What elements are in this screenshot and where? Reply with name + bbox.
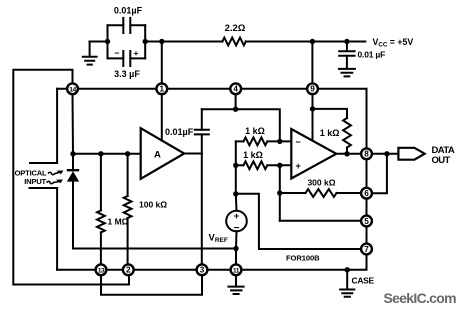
svg-text:300 kΩ: 300 kΩ xyxy=(307,178,335,188)
junction dot minus input xyxy=(277,139,282,144)
junction node 1 drop on top rail xyxy=(159,39,164,44)
svg-text:OUT: OUT xyxy=(432,155,451,166)
wire node 14 top loop left xyxy=(13,70,129,285)
comparator U2 xyxy=(291,129,336,179)
svg-text:14: 14 xyxy=(69,87,76,94)
junction dot 1M top xyxy=(98,151,103,156)
wire top rail left stub to bypass caps xyxy=(90,41,108,43)
junction dot node4 drop xyxy=(233,107,238,112)
junction node 9 drop on top rail xyxy=(310,39,315,44)
capacitor C1 0.01uF (top branch of parallel pair) xyxy=(108,6,146,59)
svg-text:0.01µF: 0.01µF xyxy=(114,6,143,16)
wire comparator output xyxy=(336,153,361,155)
node 1 xyxy=(156,83,167,94)
wire plus vertical corner to node 5 xyxy=(280,220,361,222)
svg-text:6: 6 xyxy=(364,189,369,198)
junction dot case ground xyxy=(345,267,350,272)
svg-text:5: 5 xyxy=(364,217,369,226)
node 5 xyxy=(361,216,372,227)
svg-text:+: + xyxy=(234,211,240,222)
svg-text:1 kΩ: 1 kΩ xyxy=(243,150,263,160)
ground (case) xyxy=(340,270,354,297)
node 4 xyxy=(230,83,241,94)
svg-text:3.3 µF: 3.3 µF xyxy=(114,69,140,79)
svg-text:+: + xyxy=(296,161,301,171)
wire node 13 lower loop to node 3 xyxy=(101,275,202,294)
junction dot output branch xyxy=(384,151,389,156)
wire node 1 drop into amp top xyxy=(161,94,163,140)
data out arrow xyxy=(398,148,424,160)
wire 1k pair left vertical to VREF xyxy=(235,141,237,193)
svg-text:100 kΩ: 100 kΩ xyxy=(139,200,167,210)
node junction dot photodiode top xyxy=(70,151,75,156)
wire node-9 drop xyxy=(311,42,313,84)
wire VREF bottom to node 11 xyxy=(235,249,237,265)
junction dot VREF bottom xyxy=(233,246,238,251)
wire node 7 down to bottom row xyxy=(242,255,367,270)
ground (VCC bypass) xyxy=(339,69,355,77)
op-amp U1 A xyxy=(141,128,185,179)
svg-text:1 kΩ: 1 kΩ xyxy=(245,126,265,136)
svg-text:13: 13 xyxy=(98,268,105,275)
wire pin row horizontal 14-1-4-9 xyxy=(57,88,366,90)
svg-text:3: 3 xyxy=(200,266,205,275)
svg-text:11: 11 xyxy=(233,268,240,275)
node 14 xyxy=(67,83,78,94)
wire bottom row xyxy=(57,269,230,271)
wire node 6 to node 5 xyxy=(366,199,368,216)
wire amp input line xyxy=(73,153,141,155)
wire node 4 drop xyxy=(235,94,237,109)
capacitor C4 0.01uF (VCC bypass) xyxy=(339,42,385,69)
wire row corner down to node 8 xyxy=(366,89,368,149)
wire node4 horizontal to minus input xyxy=(202,109,280,141)
junction dot pull-up bottom xyxy=(344,151,349,156)
svg-text:1 MΩ: 1 MΩ xyxy=(108,217,129,227)
wire amp output xyxy=(184,153,202,155)
capacitor C2 3.3uF electrolytic (bottom branch) xyxy=(108,48,146,79)
svg-text:2.2Ω: 2.2Ω xyxy=(225,23,246,34)
node 13 xyxy=(96,264,107,275)
capacitor C3 0.01uF feedback xyxy=(165,109,209,153)
photodiode D1 xyxy=(67,154,79,249)
svg-text:CASE: CASE xyxy=(352,276,375,286)
wire top rail caps to resistor xyxy=(145,41,222,43)
junction dot 100k top xyxy=(125,151,130,156)
optical input light arrow 2 xyxy=(47,181,60,184)
wire node-1 drop xyxy=(161,42,163,84)
label OPTICAL INPUT xyxy=(15,168,47,185)
node 7 xyxy=(361,244,372,255)
voltage source VREF xyxy=(226,194,247,249)
svg-text:7: 7 xyxy=(364,245,369,254)
ground (node 11) xyxy=(228,275,243,294)
resistor R5 1 kohm (plus input) xyxy=(236,150,291,169)
svg-text:INPUT: INPUT xyxy=(24,177,46,186)
junction dot right of cap pair xyxy=(143,39,148,44)
resistor R2 1 Mohm xyxy=(97,154,129,264)
node 11 xyxy=(231,264,242,275)
label DATA OUT xyxy=(432,145,455,166)
junction dot plus input xyxy=(277,163,282,168)
resistor R3 100 kohm xyxy=(124,154,168,264)
svg-text:9: 9 xyxy=(310,85,315,94)
svg-text:−: − xyxy=(115,48,120,58)
svg-text:0.01µF: 0.01µF xyxy=(165,127,194,137)
svg-text:SeekIC.com: SeekIC.com xyxy=(384,290,457,306)
wire photodiode bottom to VREF bottom xyxy=(73,248,236,250)
wire node 14 down to input line xyxy=(72,94,75,154)
node 8 xyxy=(361,148,372,159)
svg-text:0.01 µF: 0.01 µF xyxy=(358,49,386,59)
wire plus-input vertical xyxy=(279,165,281,221)
resistor R6 300 kohm xyxy=(280,178,361,197)
svg-text:+: + xyxy=(134,48,139,58)
wire node 9 drop to comparator power xyxy=(312,94,314,140)
node 9 xyxy=(307,83,318,94)
wire VREF top to node7 loop xyxy=(236,194,361,249)
wire top rail resistor to VCC xyxy=(246,41,365,43)
svg-text:4: 4 xyxy=(233,85,238,94)
wire node 8 to data out xyxy=(372,153,398,155)
node 6 xyxy=(361,188,372,199)
wire node 8 to node 6 xyxy=(366,159,368,187)
junction dot 1k left lower xyxy=(233,163,238,168)
svg-text:1 kΩ: 1 kΩ xyxy=(320,128,340,138)
junction dot 300k left xyxy=(277,190,282,195)
svg-text:FOR100B: FOR100B xyxy=(286,254,320,263)
junction dot left of cap pair xyxy=(105,39,110,44)
wire node 5 to node 7 xyxy=(366,227,368,244)
svg-text:−: − xyxy=(296,137,301,147)
junction dot VREF top xyxy=(233,191,238,196)
wire amp output down to node 3 xyxy=(201,154,203,265)
svg-text:2: 2 xyxy=(126,266,131,275)
node 3 xyxy=(197,264,208,275)
resistor 2.2 ohm xyxy=(222,23,245,45)
optical input light arrow 1 xyxy=(48,172,61,175)
wire port line from row down through optical window xyxy=(30,89,58,270)
svg-text:1: 1 xyxy=(160,85,165,94)
wire output branch down to node 6 xyxy=(372,154,387,193)
junction dot pull-up tap xyxy=(310,106,315,111)
node 2 xyxy=(123,264,134,275)
junction VCC bypass drop xyxy=(344,39,349,44)
resistor R7 1 kohm pull-up xyxy=(313,109,351,154)
ground (bypass caps) xyxy=(83,42,97,65)
svg-text:8: 8 xyxy=(364,150,369,159)
svg-text:A: A xyxy=(154,150,161,161)
resistor R4 1 kohm (minus input) xyxy=(236,126,291,145)
